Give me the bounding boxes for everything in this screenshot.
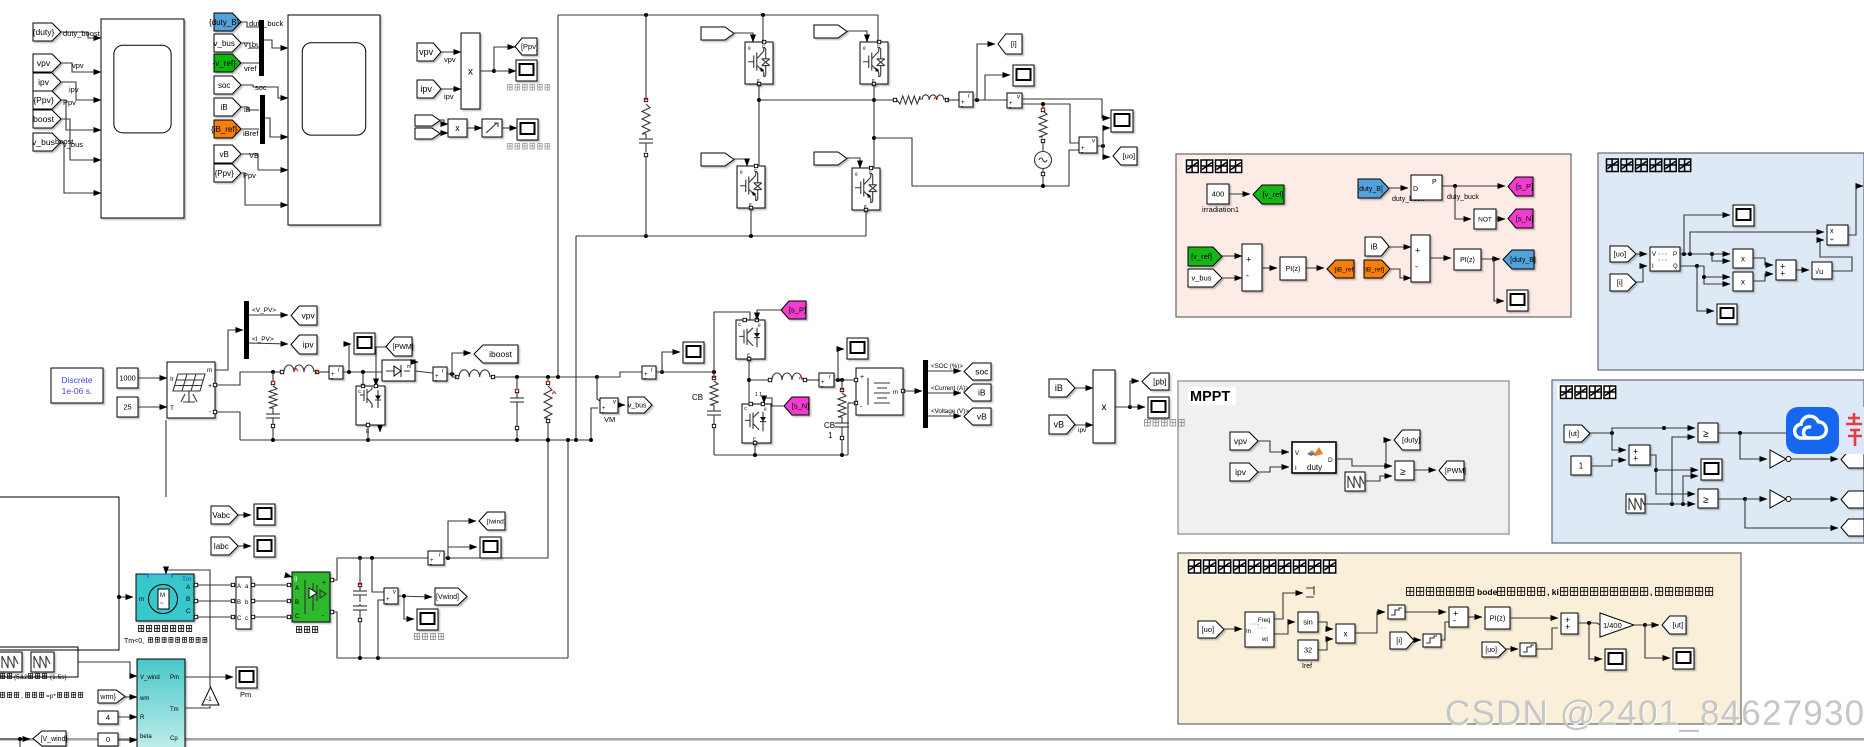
- svg-text:iB: iB: [221, 103, 228, 112]
- svg-text:[uo]: [uo]: [1202, 625, 1215, 634]
- svg-text:-: -: [1009, 105, 1011, 111]
- svg-text:≥: ≥: [1703, 429, 1709, 440]
- svg-text:irradiation1: irradiation1: [1202, 205, 1239, 214]
- svg-text:{v_ref}: {v_ref}: [213, 59, 236, 68]
- svg-text:c: c: [245, 616, 248, 622]
- svg-text:soc: soc: [218, 81, 230, 90]
- svg-text:C: C: [295, 614, 300, 620]
- svg-text:[uo]: [uo]: [1614, 250, 1627, 259]
- svg-text:x: x: [455, 123, 460, 133]
- svg-text:[V_wind]: [V_wind]: [41, 736, 68, 743]
- svg-text:E: E: [747, 353, 750, 358]
- svg-text:ipv: ipv: [1235, 467, 1247, 477]
- svg-text:iboost: iboost: [489, 349, 512, 359]
- svg-text:{Ppv}: {Ppv}: [33, 95, 53, 105]
- svg-text:Tm: Tm: [182, 576, 191, 583]
- svg-text:[Iwind]: [Iwind]: [487, 518, 506, 525]
- svg-text:+: +: [1565, 622, 1570, 632]
- svg-text:[ut]: [ut]: [1673, 621, 1683, 630]
- svg-text:[duty_B]: [duty_B]: [1510, 257, 1536, 264]
- svg-text:<Voltage (V)>: <Voltage (V)>: [931, 408, 969, 415]
- svg-text:iB: iB: [244, 105, 251, 114]
- svg-text:CB: CB: [824, 421, 835, 430]
- svg-text:-1: -1: [206, 696, 212, 703]
- svg-text:-: -: [331, 376, 333, 382]
- svg-text:-: -: [1453, 615, 1456, 625]
- svg-text:[i]: [i]: [1396, 636, 1402, 645]
- svg-text:[v_ref]: [v_ref]: [1191, 252, 1212, 261]
- svg-text:duty: duty: [1307, 463, 1322, 472]
- svg-text:Ppv: Ppv: [243, 171, 256, 180]
- svg-text:boost: boost: [33, 114, 54, 124]
- svg-text:vpv: vpv: [72, 61, 84, 70]
- svg-text:VM: VM: [604, 415, 615, 424]
- svg-text:~: ~: [160, 601, 164, 607]
- svg-text:g: g: [294, 576, 297, 582]
- svg-text:≥: ≥: [1703, 495, 1709, 506]
- svg-text:32: 32: [1304, 646, 1312, 655]
- svg-text:bode: bode: [1477, 587, 1498, 597]
- svg-text:[PWM]: [PWM]: [393, 344, 414, 351]
- svg-text:v_bus: v_bus: [63, 140, 83, 149]
- svg-text:P: P: [1432, 179, 1437, 186]
- svg-text:vpv: vpv: [37, 58, 51, 68]
- svg-text:x: x: [1741, 254, 1745, 263]
- svg-text:√u: √u: [1815, 267, 1823, 276]
- svg-text:v_bus: v_bus: [214, 39, 235, 48]
- svg-text:PI(z): PI(z): [1460, 257, 1475, 264]
- svg-text:B: B: [237, 600, 241, 606]
- svg-text:Discrete: Discrete: [61, 375, 92, 385]
- svg-text:ipv: ipv: [69, 85, 79, 94]
- svg-text:M: M: [160, 593, 165, 599]
- svg-text:[s_P]: [s_P]: [1516, 182, 1533, 191]
- svg-text:1000: 1000: [119, 374, 136, 383]
- svg-text:[ut]: [ut]: [1569, 429, 1579, 438]
- svg-text:iB: iB: [978, 388, 986, 398]
- svg-text:x: x: [1102, 402, 1107, 413]
- svg-text:1 1: 1 1: [755, 392, 762, 398]
- svg-text:E: E: [753, 437, 756, 442]
- svg-text:B: B: [295, 600, 299, 606]
- svg-text:[uo]: [uo]: [1123, 152, 1136, 161]
- svg-text:V: V: [1295, 451, 1299, 457]
- svg-text:+: +: [322, 580, 326, 587]
- svg-text:<I_PV>: <I_PV>: [252, 336, 274, 343]
- svg-text:+: +: [208, 383, 212, 390]
- svg-text:m: m: [207, 367, 212, 374]
- svg-text:C: C: [237, 616, 242, 622]
- svg-text:ipv: ipv: [1078, 427, 1087, 434]
- svg-text:v_bus: v_bus: [244, 40, 264, 49]
- svg-text:C: C: [186, 608, 191, 615]
- svg-text:R: R: [140, 715, 145, 721]
- svg-text:NOT: NOT: [1478, 216, 1492, 223]
- svg-text:-: -: [386, 601, 388, 607]
- svg-text:{iB_ref}: {iB_ref}: [211, 125, 238, 134]
- svg-text:vpv: vpv: [302, 311, 316, 321]
- svg-text:PI(z): PI(z): [1490, 614, 1506, 623]
- svg-text:In: In: [1246, 629, 1251, 635]
- svg-text:+: +: [1633, 453, 1638, 463]
- svg-text:-: -: [435, 378, 437, 384]
- svg-text:[i]: [i]: [1617, 278, 1623, 287]
- svg-text:Tm: Tm: [170, 707, 179, 713]
- svg-text:V: V: [1652, 252, 1656, 258]
- svg-text:1e-06 s.: 1e-06 s.: [62, 386, 93, 396]
- svg-text:<SOC (%)>: <SOC (%)>: [931, 363, 963, 370]
- svg-text:1/400: 1/400: [1603, 621, 1622, 630]
- svg-text:beta: beta: [140, 734, 152, 740]
- svg-text:Tm<0,: Tm<0,: [124, 638, 144, 645]
- svg-text:[uo]: [uo]: [1485, 647, 1497, 654]
- svg-text:{duty}: {duty}: [33, 27, 55, 37]
- svg-text:duty_buck: duty_buck: [249, 19, 283, 28]
- svg-text:duty_buck: duty_buck: [1447, 194, 1479, 201]
- svg-text:Pm: Pm: [170, 675, 179, 681]
- svg-text:+: +: [1780, 268, 1785, 278]
- svg-text:{duty_B}: {duty_B}: [209, 18, 240, 27]
- svg-text:, ki: , ki: [1547, 587, 1559, 597]
- svg-text:vB: vB: [1054, 420, 1065, 430]
- svg-text:[PWM]: [PWM]: [1445, 468, 1466, 475]
- svg-text:Pm: Pm: [240, 690, 251, 699]
- svg-text:400: 400: [1212, 190, 1225, 199]
- svg-text:[Ppv]: [Ppv]: [521, 42, 538, 51]
- svg-text:+: +: [860, 374, 864, 381]
- svg-text:soc: soc: [975, 367, 989, 377]
- svg-text:[s_N]: [s_N]: [1516, 214, 1534, 223]
- svg-text:-: -: [1415, 261, 1418, 271]
- svg-text:wrm}: wrm}: [99, 694, 116, 701]
- svg-text:E: E: [864, 204, 867, 209]
- svg-text:iBref: iBref: [243, 129, 259, 138]
- svg-text:<Current (A)>: <Current (A)>: [931, 385, 969, 392]
- svg-text:-: -: [1081, 150, 1083, 156]
- svg-text:vpv: vpv: [419, 47, 434, 57]
- svg-text:V_wind: V_wind: [140, 675, 160, 681]
- svg-text:=p*: =p*: [46, 693, 56, 700]
- svg-text:-: -: [961, 104, 963, 110]
- svg-text:B: B: [186, 596, 190, 603]
- svg-text:Ppv: Ppv: [63, 98, 76, 107]
- svg-text:[v_ref]: [v_ref]: [1263, 190, 1284, 199]
- svg-text:v_bus: v_bus: [32, 137, 55, 147]
- svg-text:-: -: [821, 384, 823, 390]
- svg-text:E: E: [757, 78, 760, 83]
- svg-text:x: x: [468, 67, 473, 78]
- svg-text:,: ,: [1650, 587, 1652, 597]
- svg-text:iB: iB: [1055, 383, 1063, 393]
- svg-text:vref: vref: [244, 64, 257, 73]
- svg-text:≥: ≥: [1400, 467, 1406, 478]
- svg-text:D: D: [1328, 457, 1333, 464]
- svg-text:wt: wt: [1261, 637, 1268, 643]
- svg-text:VB: VB: [249, 151, 259, 160]
- svg-text:Iabc: Iabc: [214, 542, 229, 551]
- svg-text:[iB_ref]: [iB_ref]: [1364, 266, 1385, 273]
- svg-text:[pb]: [pb]: [1153, 377, 1166, 386]
- svg-text:[iB_ref]: [iB_ref]: [1335, 266, 1356, 273]
- svg-text:Iref: Iref: [1302, 663, 1312, 670]
- svg-text:m: m: [407, 364, 411, 370]
- svg-text:PI(z): PI(z): [1286, 266, 1301, 273]
- svg-text:Vabc: Vabc: [212, 511, 230, 520]
- svg-text:+: +: [1415, 246, 1420, 256]
- svg-text:duty_boost: duty_boost: [63, 29, 101, 38]
- svg-text:sin: sin: [1303, 618, 1313, 627]
- svg-text:A: A: [186, 584, 191, 591]
- svg-text:(1.5s): (1.5s): [50, 674, 67, 681]
- svg-text:-: -: [430, 562, 432, 568]
- svg-text:vpv: vpv: [444, 55, 456, 64]
- svg-text:ipv: ipv: [444, 92, 454, 101]
- svg-text:(5&2: (5&2: [14, 674, 28, 681]
- svg-text:x: x: [1830, 228, 1834, 235]
- svg-text:4: 4: [106, 713, 110, 722]
- svg-text:[Vwind]: [Vwind]: [436, 594, 459, 601]
- svg-text:m: m: [139, 597, 144, 603]
- svg-text:x: x: [1344, 629, 1348, 638]
- svg-text:ipv: ipv: [38, 77, 50, 87]
- svg-text:0: 0: [106, 735, 110, 744]
- svg-text:[duty]: [duty]: [1402, 436, 1420, 445]
- svg-text:+: +: [1246, 255, 1251, 265]
- svg-text:Freq: Freq: [1258, 618, 1270, 624]
- svg-text:Q: Q: [1673, 264, 1678, 270]
- svg-text:1: 1: [1579, 461, 1584, 470]
- svg-text:E: E: [749, 202, 752, 207]
- svg-text:T: T: [170, 405, 174, 412]
- svg-text:÷: ÷: [1830, 237, 1834, 244]
- svg-text:[duty_B]: [duty_B]: [1357, 186, 1383, 193]
- svg-text:vB: vB: [220, 150, 229, 159]
- svg-text:[i]: [i]: [1011, 40, 1017, 49]
- svg-text:25: 25: [123, 403, 131, 412]
- svg-text:wm: wm: [139, 696, 149, 702]
- svg-text:A: A: [237, 584, 241, 590]
- svg-text:E: E: [872, 78, 875, 83]
- svg-text:soc: soc: [255, 83, 267, 92]
- svg-text:-: -: [644, 376, 646, 382]
- svg-text:[s_N]: [s_N]: [792, 402, 810, 411]
- svg-text:{Ppv}: {Ppv}: [215, 169, 234, 178]
- svg-text:<V_PV>: <V_PV>: [252, 307, 276, 314]
- svg-text:ipv: ipv: [303, 340, 315, 350]
- svg-text:[s_P]: [s_P]: [789, 306, 806, 315]
- svg-text:A: A: [295, 586, 299, 592]
- svg-text:CSDN @2401_84627930: CSDN @2401_84627930: [1445, 694, 1864, 733]
- svg-text:x: x: [1741, 277, 1745, 286]
- svg-text:v_bus: v_bus: [628, 403, 647, 410]
- svg-text:CB: CB: [692, 393, 703, 402]
- svg-text:vpv: vpv: [1234, 436, 1248, 446]
- svg-text:vB: vB: [977, 412, 987, 422]
- svg-text:m: m: [893, 390, 898, 396]
- svg-text:iB: iB: [1371, 242, 1378, 251]
- svg-text:1: 1: [828, 431, 833, 440]
- svg-text:P: P: [1673, 252, 1677, 258]
- svg-text:v_bus: v_bus: [1191, 274, 1211, 283]
- svg-text:-: -: [1246, 270, 1249, 280]
- svg-text:Cp: Cp: [170, 736, 178, 742]
- svg-text:,: ,: [21, 693, 23, 700]
- svg-text:MPPT: MPPT: [1190, 389, 1230, 405]
- svg-text:ipv: ipv: [420, 84, 432, 94]
- svg-text:D: D: [1413, 186, 1418, 193]
